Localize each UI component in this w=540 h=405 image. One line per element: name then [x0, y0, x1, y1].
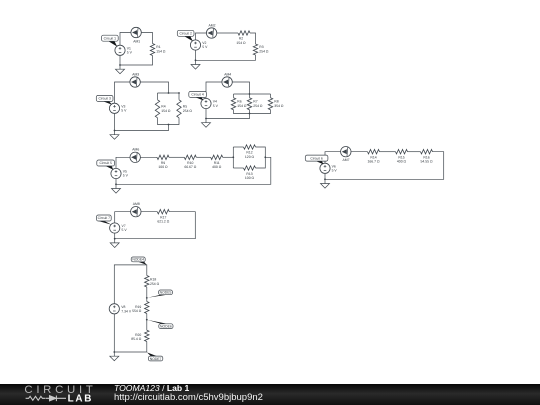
svg-text:NODE4: NODE4 [132, 258, 144, 262]
wire: circuit 2 AM2 to R2 [217, 32, 238, 34]
wire: circuit 3 box top to R4 [157, 93, 159, 100]
wire: circuit 4 AM4 to parallel box top [232, 82, 249, 94]
logo diode [46, 396, 66, 402]
wire: circuit 6 R15 to R16 [408, 151, 421, 153]
wire: circuit 6 V6 top to AM7 [325, 152, 341, 164]
wire: circuit 8 R20 to bottom rail [114, 342, 147, 353]
wire: circuit 3 box bottom rail [158, 118, 180, 125]
svg-text:NODE5: NODE5 [160, 291, 172, 295]
junction: circuit 5 box left node [232, 156, 234, 158]
junction: NODE6 [146, 319, 148, 321]
wire: circuit 7 R17 to return rail [115, 212, 196, 239]
wire: circuit 3 AM3 to parallel box top [140, 82, 168, 93]
wire: circuit 5 R10 to R11 [196, 156, 210, 158]
svg-text:R1066.67 Ω: R1066.67 Ω [184, 161, 196, 169]
wire: circuit 4 box bottom rail [234, 110, 271, 114]
resistor R4 154 Ohm [155, 100, 159, 118]
wire: circuit 5 R11 to parallel box [223, 156, 234, 158]
ammeter AM6 [130, 152, 140, 162]
svg-text:R4154 Ω: R4154 Ω [161, 105, 171, 113]
ammeter AM8 [131, 207, 141, 217]
wire: circuit 4 box top to R7 [249, 94, 251, 98]
ground: circuit 6 [321, 179, 330, 188]
wire: circuit 7 AM8 to R17 [141, 211, 157, 213]
wire: circuit 1 R1 bottom to ground rail [120, 56, 153, 66]
wire: circuit 3 box bottom to ground rail [115, 125, 169, 131]
resistor R11 400 Ohm [211, 155, 223, 159]
resistor R13 100 Ohm [244, 166, 256, 170]
svg-text:AM2: AM2 [209, 23, 216, 27]
wire: circuit 5 return to ground rail [116, 157, 271, 184]
wire: circuit 8 R19 to R20 (NODE6 segment) [146, 314, 148, 331]
resistor R8 354 Ohm [268, 98, 272, 110]
voltage source V4 5 V [201, 98, 211, 108]
svg-text:R11400 Ω: R11400 Ω [212, 161, 222, 169]
wire: circuit 8 V8 bottom to ground rail [113, 314, 115, 352]
svg-text:AM8: AM8 [133, 202, 140, 206]
resistor R5 254 Ohm [177, 100, 181, 118]
node label callout Circuit 3 [96, 95, 113, 104]
svg-text:V55 V: V55 V [123, 169, 129, 177]
wire: circuit 4 box bottom to ground rail [206, 110, 250, 119]
ammeter AM2 [206, 28, 216, 38]
wire: circuit 3 V3 top to AM3 [115, 82, 130, 103]
ammeter AM3 [130, 77, 140, 87]
node label callout NODE7 [147, 352, 163, 361]
ammeter AM7 [341, 147, 351, 157]
resistor R3 254 Ohm [253, 44, 257, 55]
svg-text:AM4: AM4 [224, 72, 231, 76]
svg-text:R15400 Ω: R15400 Ω [397, 155, 407, 163]
wire: circuit 1 left/top to AM1 [120, 33, 131, 48]
junction: circuit 4 ground node [205, 118, 207, 120]
svg-text:V87.34 V: V87.34 V [121, 305, 132, 313]
svg-text:NODE6: NODE6 [160, 324, 172, 328]
wire: circuit 8 R18 to R19 (NODE5 segment) [146, 287, 148, 302]
svg-text:Circuit 3: Circuit 3 [98, 97, 111, 101]
resistor R18 254 Ohm [145, 276, 149, 288]
wire: circuit 3 parallel box top rail [158, 92, 180, 94]
ground: circuit 1 [116, 65, 125, 74]
svg-text:R2154 Ω: R2154 Ω [236, 37, 246, 45]
svg-text:R2085.4 Ω: R2085.4 Ω [131, 333, 142, 341]
wire: circuit 5 V5 top to AM6 [116, 157, 130, 168]
svg-text:AM1: AM1 [133, 40, 140, 44]
svg-text:Circuit 1: Circuit 1 [104, 37, 117, 41]
junction: circuit 2 ground node [195, 59, 197, 61]
resistor R7 254 Ohm [247, 98, 251, 110]
svg-text:V35 V: V35 V [121, 104, 127, 112]
svg-text:NODE7: NODE7 [150, 357, 162, 361]
wire: circuit 2 V2 bottom to ground rail [195, 50, 197, 60]
resistor R20 85.4 Ohm [145, 330, 149, 341]
resistor R2 154 Ohm [238, 31, 250, 35]
junction: circuit 7 ground node [114, 238, 116, 240]
wire: circuit 5 box right edge [256, 147, 266, 168]
wire: circuit 1 AM1 to R1 top [141, 33, 152, 44]
svg-text:V45 V: V45 V [213, 100, 219, 108]
voltage source V1 5 V [115, 45, 125, 55]
node label callout NODE6 [147, 320, 173, 329]
wire: circuit 3 V3 bottom to ground rail [114, 114, 116, 131]
footer meta text [114, 384, 263, 402]
ground: circuit 5 [112, 184, 121, 193]
svg-text:LAB: LAB [68, 394, 94, 405]
node label callout Circuit 5 [97, 160, 115, 170]
junction: circuit 1 ground node [119, 64, 121, 66]
svg-text:Circuit 4: Circuit 4 [191, 93, 204, 97]
ground: circuit 4 [202, 119, 211, 128]
wire: circuit 8 V8 top to R18 [114, 265, 147, 304]
resistor R6 154 Ohm [231, 98, 235, 110]
node label callout Circuit 7 [97, 215, 112, 225]
svg-text:AM6: AM6 [132, 148, 139, 152]
svg-text:R6154 Ω: R6154 Ω [237, 100, 247, 108]
wire: circuit 6 AM7 to R14 [351, 151, 368, 153]
voltage source V8 7.34 V [109, 304, 119, 314]
svg-text:V25 V: V25 V [202, 41, 208, 49]
wire: circuit 5 box top-left to R12 [233, 146, 243, 148]
wire: circuit 4 box top to R8 [270, 94, 272, 98]
svg-text:R19554 Ω: R19554 Ω [132, 305, 142, 313]
wire: circuit 4 parallel box top rail [234, 93, 271, 95]
svg-text:R3254 Ω: R3254 Ω [259, 45, 269, 53]
footer bar [0, 384, 540, 405]
svg-text:AM7: AM7 [343, 158, 350, 162]
wire: circuit 2 R2 to R3 top [250, 33, 256, 44]
svg-text:R18254 Ω: R18254 Ω [150, 278, 160, 286]
node label callout Circuit 2 [177, 30, 194, 41]
wire: circuit 1 V1 bottom to ground rail [119, 53, 121, 65]
svg-text:Circuit 6: Circuit 6 [310, 156, 323, 160]
junction: circuit 5 box right node [264, 156, 266, 158]
wire: circuit 6 R16 to return rail [325, 152, 444, 180]
ammeter AM4 [222, 77, 232, 87]
resistor R12 120 Ohm [244, 145, 256, 149]
ground: circuit 2 [191, 60, 200, 69]
wire: circuit 4 V4 bottom to ground rail [205, 109, 207, 119]
svg-text:V75 V: V75 V [122, 224, 128, 232]
svg-text:R12120 Ω: R12120 Ω [245, 151, 255, 159]
junction: circuit 3 ground node [114, 130, 116, 132]
node label callout Circuit 6 [305, 155, 328, 164]
ground: circuit 8 [110, 352, 119, 361]
wire: circuit 5 AM6 to R9 [140, 156, 157, 158]
svg-text:Circuit 7: Circuit 7 [98, 216, 111, 220]
junction: circuit 6 ground node [324, 178, 326, 180]
svg-text:AM3: AM3 [132, 72, 139, 76]
svg-text:Circuit 5: Circuit 5 [99, 161, 112, 165]
resistor R15 400 Ohm [396, 150, 408, 154]
node label callout NODE4 [131, 257, 146, 265]
voltage source V6 5 V [320, 163, 330, 173]
voltage source V3 5 V [109, 103, 119, 113]
wire: circuit 3 box top to R5 [178, 93, 180, 100]
svg-text:V65 V: V65 V [332, 164, 338, 172]
ground: circuit 3 [110, 131, 119, 140]
junction: circuit 4 box bottom node [249, 113, 251, 115]
wire: circuit 5 V5 bottom to ground rail [115, 179, 117, 185]
voltage source V7 5 V [110, 223, 120, 233]
junction: circuit 3 box top node [168, 92, 170, 94]
junction: circuit 8 ground node [113, 351, 115, 353]
voltage source V5 5 V [111, 168, 121, 178]
resistor R1 154 Ohm [150, 44, 154, 56]
resistor R14 166.7 Ohm [368, 150, 380, 154]
resistor R10 66.67 Ohm [184, 155, 196, 159]
ammeter AM1 [131, 27, 141, 37]
svg-text:R7254 Ω: R7254 Ω [253, 100, 263, 108]
svg-text:R1154 Ω: R1154 Ω [156, 45, 166, 53]
wire: circuit 2 R3 bottom to ground rail [196, 55, 256, 60]
svg-text:R5254 Ω: R5254 Ω [183, 105, 193, 113]
junction: NODE5 [146, 297, 148, 299]
svg-text:V15 V: V15 V [127, 46, 133, 54]
svg-text:R1654.55 Ω: R1654.55 Ω [421, 155, 433, 163]
resistor R9 100 Ohm [157, 155, 169, 159]
wire: circuit 2 V2 top to AM2 [196, 33, 207, 40]
svg-text:R17621.2 Ω: R17621.2 Ω [157, 215, 169, 223]
wire: circuit 4 V4 top to AM4 [206, 82, 222, 99]
junction: circuit 3 box top right node [178, 92, 180, 94]
wire: circuit 6 R14 to R15 [380, 151, 396, 153]
ground: circuit 7 [110, 239, 119, 248]
resistor R16 54.55 Ohm [421, 150, 433, 154]
voltage source V2 5 V [190, 40, 200, 50]
svg-text:R9100 Ω: R9100 Ω [158, 161, 168, 169]
node label callout Circuit 1 [102, 35, 119, 46]
wire: circuit 5 R9 to R10 [169, 156, 184, 158]
resistor R19 554 Ohm [145, 302, 149, 314]
resistor R17 621.2 Ohm [157, 210, 169, 214]
node label callout NODE5 [147, 290, 172, 298]
wire: circuit 7 V7 top to AM8 [115, 212, 131, 223]
junction: circuit 5 ground node [115, 183, 117, 185]
svg-text:R14166.7 Ω: R14166.7 Ω [368, 155, 380, 163]
wire: circuit 5 box left edge [232, 147, 234, 168]
wire: circuit 5 box bottom-left to R13 [233, 167, 243, 169]
svg-text:Circuit 2: Circuit 2 [179, 32, 192, 36]
junction: circuit 4 box top node [249, 93, 251, 95]
svg-text:R13100 Ω: R13100 Ω [245, 172, 255, 180]
junction: circuit 3 box bottom node [168, 124, 170, 126]
svg-text:R8354 Ω: R8354 Ω [274, 100, 284, 108]
CircuitLab logo [0, 384, 110, 404]
logo resistor squiggle [26, 396, 46, 400]
node label callout Circuit 4 [189, 91, 207, 100]
wire: circuit 6 V6 bottom to ground rail [324, 173, 326, 179]
wire: circuit 4 box top to R6 [233, 94, 235, 98]
wire: circuit 7 V7 bottom to ground rail [114, 233, 116, 239]
